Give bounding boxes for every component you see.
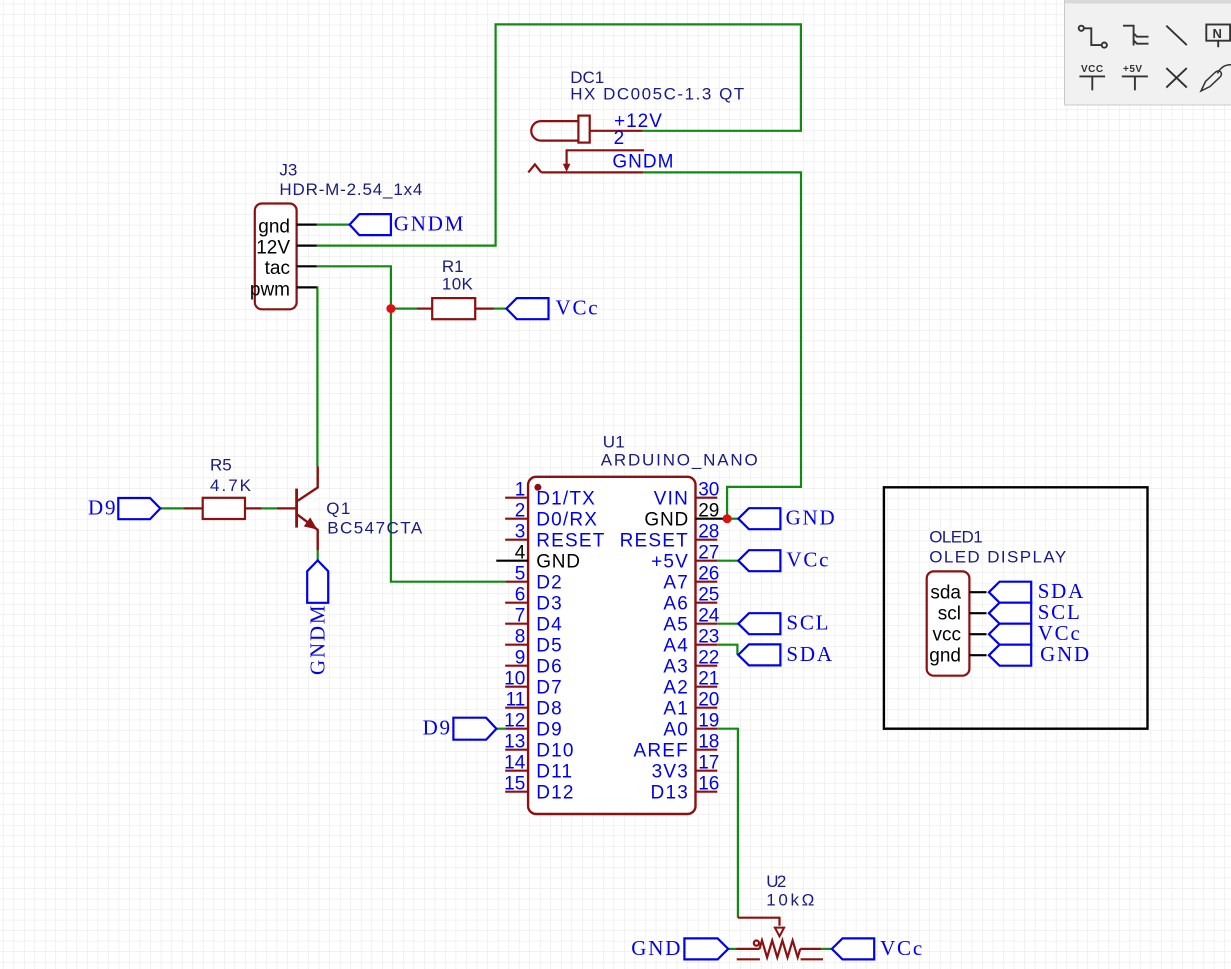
toolbar icon no-connect X [1166,68,1187,87]
toolbar icon line tool [1166,26,1187,45]
toolbar icon pen tool [1201,65,1231,91]
wire net +12V (DC1 pin1 to J3 12V pin) [317,24,801,245]
wire R5 to Q1 base [262,507,277,509]
svg-text:VCc: VCc [556,296,600,320]
svg-text:D2: D2 [536,573,563,594]
svg-text:3: 3 [515,522,526,543]
svg-text:A1: A1 [663,699,689,720]
net flag SCL at OLED1 [989,603,1031,624]
svg-text:RESET: RESET [620,531,689,552]
toolbar panel top-right [1065,0,1231,105]
svg-text:AREF: AREF [634,741,689,762]
svg-text:12V: 12V [256,237,290,258]
OLED1 pins [969,592,986,655]
net flag VCc at U2 [832,938,874,959]
svg-text:3V3: 3V3 [652,762,689,783]
svg-text:7: 7 [515,606,526,627]
svg-text:ARDUINO_NANO: ARDUINO_NANO [601,450,758,469]
net flag GND at U2 [684,938,728,959]
net flag GND at OLED1 [989,645,1031,666]
svg-text:D13: D13 [651,783,689,804]
svg-text:16: 16 [698,774,719,795]
svg-text:4.7K: 4.7K [210,476,252,495]
connector J3 body [255,204,297,310]
svg-text:+5V: +5V [1123,64,1143,75]
svg-text:U1: U1 [603,432,625,451]
U2 wiper lead and arrow [738,918,780,926]
net flag VCc at OLED1 [989,624,1031,645]
OLED1 outline box [884,487,1148,728]
svg-text:22: 22 [698,648,719,669]
svg-text:GNDM: GNDM [394,212,465,236]
svg-text:gnd: gnd [929,646,961,667]
svg-text:D8: D8 [536,699,563,720]
svg-text:15: 15 [504,774,525,795]
svg-text:D9: D9 [88,495,117,519]
wire U1 pin23 to SDA flag [717,645,737,655]
wire U1 pin12 to D9 flag [496,728,505,730]
wire U2 GND flag lead [728,948,736,950]
svg-text:OLED1: OLED1 [929,527,983,546]
J3 pin names [250,217,290,301]
svg-text:D9: D9 [536,720,563,741]
OLED1 body [927,571,970,675]
svg-text:13: 13 [504,732,525,753]
svg-text:2: 2 [614,128,626,149]
svg-text:D5: D5 [536,636,563,657]
wire net GNDM sleeve (DC1 pin3 to U1 pin29 junction) [643,172,801,518]
net flag SDA at OLED1 [989,582,1031,603]
U1 left pin names [536,489,605,804]
svg-text:10K: 10K [442,274,474,293]
svg-text:11: 11 [506,690,526,711]
svg-text:SCL: SCL [786,611,830,635]
wire net PWM (J3 pwm pin to Q1 collector) [316,287,319,466]
svg-text:OLED DISPLAY: OLED DISPLAY [929,548,1066,567]
svg-text:GND: GND [536,552,581,573]
ground flag GNDM at Q1 emitter [307,560,328,602]
svg-text:SDA: SDA [786,642,833,666]
U1 right pins 30-16 [696,498,724,792]
wire U1 pin27 to VCc flag [717,560,738,562]
svg-text:26: 26 [698,564,719,585]
svg-text:HDR-M-2.54_1x4: HDR-M-2.54_1x4 [279,180,422,199]
transistor Q1 [277,507,297,509]
U1 right pin names [620,489,689,804]
svg-text:GND: GND [786,506,837,530]
junction node tac/R1 [386,304,395,313]
net flag D9 at U1 pin12 [453,718,496,740]
toolbar icon +5V symbol [1122,76,1148,90]
wire R1 node segments [391,308,417,310]
svg-text:8: 8 [515,627,526,648]
svg-text:tac: tac [265,258,290,279]
svg-text:A0: A0 [663,720,689,741]
svg-text:D3: D3 [536,594,563,615]
wire U1 pin29 to GND flag [724,518,738,520]
svg-text:A5: A5 [663,615,689,636]
svg-text:sda: sda [930,583,961,604]
svg-text:D4: D4 [536,615,563,636]
svg-text:23: 23 [698,627,719,648]
wire net TAC (J3 tac pin to U1 D2 pin5) [317,266,505,581]
svg-text:U2: U2 [766,872,786,891]
svg-text:1: 1 [515,480,526,501]
svg-text:19: 19 [698,711,719,732]
net flag D9 (source) [118,498,160,519]
svg-text:17: 17 [698,753,719,774]
svg-text:27: 27 [698,543,719,564]
svg-text:28: 28 [698,522,719,543]
svg-text:2: 2 [515,501,526,522]
svg-text:9: 9 [515,648,526,669]
svg-text:A6: A6 [663,594,689,615]
svg-text:5: 5 [515,564,526,585]
svg-text:vcc: vcc [933,625,962,646]
svg-text:29: 29 [698,501,719,522]
toolbar icon VCC symbol [1079,76,1105,90]
svg-text:D6: D6 [536,657,563,678]
svg-text:A4: A4 [663,636,689,657]
wire U2 VCc flag lead [821,948,832,950]
svg-text:gnd: gnd [258,217,290,238]
svg-text:21: 21 [698,669,719,690]
DC1 pin 2 [563,150,644,172]
IC U1 body [528,477,695,814]
resistor R5 body [203,498,245,519]
svg-text:D1/TX: D1/TX [536,489,596,510]
svg-text:VCc: VCc [786,548,830,572]
J3 pins [297,225,317,288]
net flag GND at U1 pin29 [738,508,780,529]
svg-text:D10: D10 [536,741,574,762]
svg-text:GNDM: GNDM [306,604,330,675]
toolbar icon bus tool [1123,26,1149,46]
junction node U1 pin29 / GNDM sleeve [723,514,732,523]
DC1 pin 1 (+12V) [590,130,643,132]
svg-text:scl: scl [938,604,961,625]
DC1 pin 3 sleeve [528,164,643,172]
resistor R1 body [432,298,475,319]
svg-text:A3: A3 [663,657,689,678]
svg-text:30: 30 [698,480,719,501]
potentiometer U2 body [737,940,824,959]
svg-text:VCC: VCC [1081,64,1104,75]
connector DC1 barrel jack body [531,116,589,143]
wire J3 gnd pin to GNDM flag [317,224,350,226]
svg-text:GND: GND [631,936,682,960]
OLED1 pin names [929,583,961,667]
svg-text:N: N [1213,26,1222,41]
svg-text:J3: J3 [279,161,297,180]
resistor R5 pins [183,507,202,509]
svg-text:Q1: Q1 [326,499,350,518]
svg-text:D7: D7 [536,678,563,699]
svg-text:D11: D11 [536,762,573,783]
net flag SDA at U1 pin23 [738,644,780,665]
wire net A0 (U1 pin19 to U2 wiper) [717,729,738,918]
U1 right pin numbers 30-16 [698,480,720,795]
svg-text:14: 14 [504,753,526,774]
svg-text:12: 12 [504,711,525,732]
svg-text:BC547CTA: BC547CTA [327,519,423,538]
svg-text:GND: GND [644,510,689,531]
svg-text:10: 10 [504,669,525,690]
svg-text:GNDM: GNDM [612,151,674,172]
wire Q1 emitter to GNDM flag [317,550,319,560]
svg-text:VCc: VCc [880,936,924,960]
resistor R1 pins [417,308,432,310]
svg-text:D9: D9 [423,716,452,740]
net flag SCL at U1 pin24 [738,613,780,634]
wire D9 flag to R5 [160,507,183,509]
svg-text:GND: GND [1040,642,1091,666]
svg-text:A2: A2 [663,678,689,699]
svg-text:A7: A7 [663,573,689,594]
U1 left pins 1-15 [496,498,528,792]
toolbar icon netlabel tool [1206,25,1230,48]
U1 left pin numbers 1-15 [504,480,526,795]
wire U1 pin24 to SCL flag [717,623,738,625]
U1 pin 1 marker dot [534,484,541,491]
net flag VCc at U1 pin27 [738,550,780,571]
svg-text:18: 18 [698,732,719,753]
svg-text:VIN: VIN [654,489,689,510]
svg-text:25: 25 [698,585,719,606]
svg-text:+5V: +5V [651,552,689,573]
toolbar icon wire tool [1079,26,1107,48]
svg-text:4: 4 [515,543,526,564]
svg-text:HX DC005C-1.3 QT: HX DC005C-1.3 QT [570,85,744,104]
net flag GNDM at J3 [350,214,391,235]
svg-text:D12: D12 [536,783,574,804]
svg-text:20: 20 [698,690,719,711]
svg-text:6: 6 [515,585,526,606]
svg-text:10kΩ: 10kΩ [766,890,814,909]
svg-text:RESET: RESET [536,531,605,552]
svg-text:D0/RX: D0/RX [536,510,598,531]
svg-text:R5: R5 [210,456,232,475]
svg-text:24: 24 [698,606,720,627]
net flag VCc at R1 [506,298,548,319]
svg-text:pwm: pwm [250,279,290,300]
